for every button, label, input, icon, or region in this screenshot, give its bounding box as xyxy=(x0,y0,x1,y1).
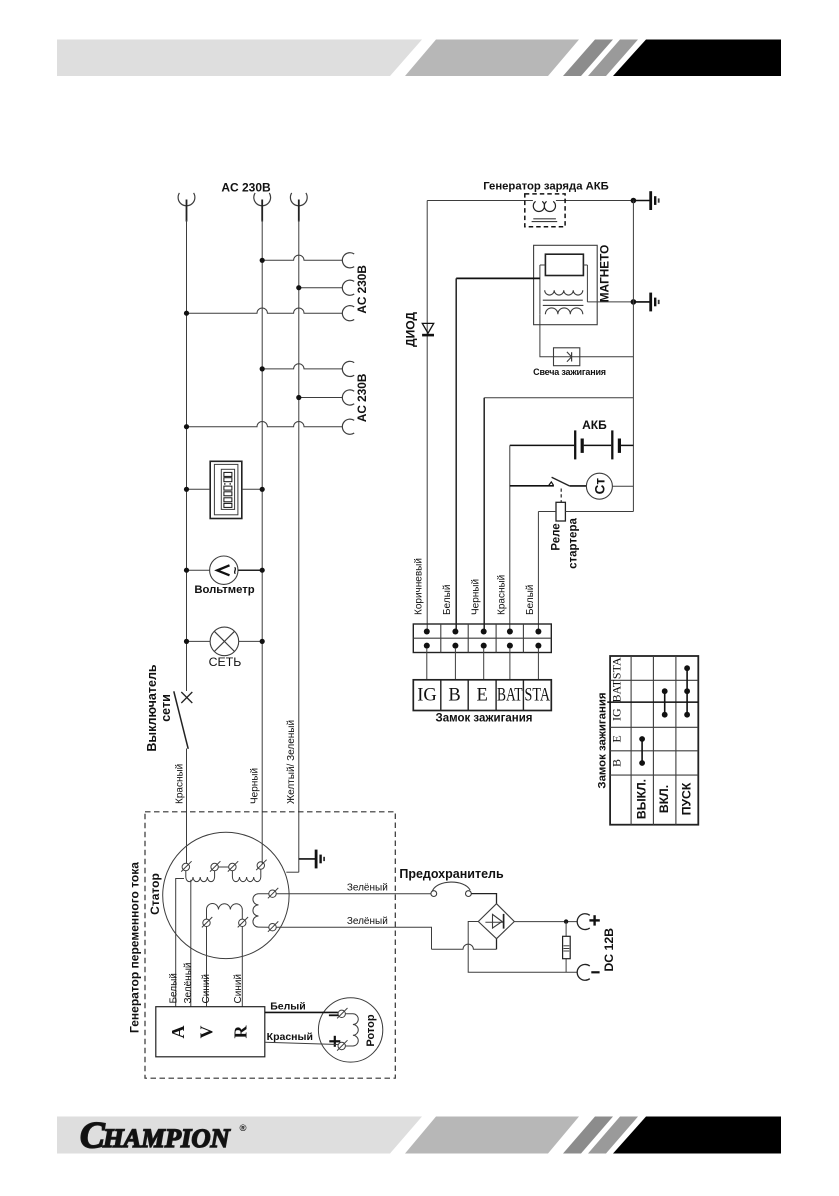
svg-text:Белый: Белый xyxy=(270,1001,305,1013)
wire counter right xyxy=(242,488,262,490)
stator terminal 3 xyxy=(229,863,236,870)
svg-text:DC 12В: DC 12В xyxy=(602,928,616,972)
junction voltmeter right xyxy=(260,568,265,573)
ignition lock pin labels xyxy=(413,680,551,711)
svg-text:ПУСК: ПУСК xyxy=(680,782,694,815)
wire white STA vertical xyxy=(537,512,539,632)
connector pin bottom 5 xyxy=(535,643,541,649)
svg-text:сети: сети xyxy=(159,694,173,722)
svg-text:Красный: Красный xyxy=(496,575,507,615)
stator terminal 6 xyxy=(239,919,246,926)
svg-text:Желтый/ Зеленый: Желтый/ Зеленый xyxy=(286,720,297,804)
socket contact 4 xyxy=(342,361,354,376)
svg-text:Замок зажигания: Замок зажигания xyxy=(435,713,532,725)
svg-text:Синий: Синий xyxy=(233,974,244,1004)
wire battery to switch (red) xyxy=(509,445,511,631)
spark plug xyxy=(554,348,580,366)
stator terminal 5 xyxy=(203,919,210,926)
svg-text:ВЫКЛ.: ВЫКЛ. xyxy=(635,779,649,819)
svg-text:Черный: Черный xyxy=(250,768,261,804)
stator DC winding xyxy=(253,894,269,928)
rotor terminal plus xyxy=(338,1042,345,1049)
socket contact 1 xyxy=(342,253,354,268)
wire lamp right xyxy=(239,640,263,642)
wire green 1 xyxy=(276,893,431,895)
junction resistor top xyxy=(564,919,568,923)
rotor plus sign xyxy=(329,1040,340,1042)
stator terminal 2 xyxy=(211,863,218,870)
svg-text:IG: IG xyxy=(610,708,624,721)
diode VD1 xyxy=(422,323,434,335)
wire to outlet 1 xyxy=(262,255,342,260)
svg-text:Статор: Статор xyxy=(148,873,162,915)
stator terminal 1 xyxy=(182,863,189,870)
magneto secondary winding xyxy=(545,308,582,314)
wire blue 1 xyxy=(206,927,208,1007)
magneto core line 2 xyxy=(543,304,584,306)
wire phase 1 lower vertical xyxy=(186,749,188,864)
junction counter right xyxy=(260,487,265,492)
svg-text:R: R xyxy=(231,1025,251,1039)
wire magneto to ground 2 xyxy=(587,301,650,303)
wire green tap xyxy=(190,880,192,1007)
terminal DC minus xyxy=(577,964,599,980)
svg-text:Ст: Ст xyxy=(592,478,607,495)
svg-text:B: B xyxy=(610,759,624,767)
wire black vertical xyxy=(483,398,485,632)
svg-text:ВКЛ.: ВКЛ. xyxy=(657,785,671,813)
svg-text:Предохранитель: Предохранитель xyxy=(399,867,504,881)
ignition connector block xyxy=(413,624,551,653)
svg-text:Синий: Синий xyxy=(201,974,212,1004)
decorative band xyxy=(57,1117,422,1154)
svg-text:СЕТЬ: СЕТЬ xyxy=(209,655,242,669)
wire white tap xyxy=(176,879,184,1007)
svg-text:Белый: Белый xyxy=(169,973,180,1003)
wire to outlet 6 xyxy=(187,422,343,427)
rotor minus sign xyxy=(329,1014,338,1016)
connector pin top 3 xyxy=(481,629,487,635)
stator terminal 8 xyxy=(269,924,276,931)
svg-text:STA: STA xyxy=(610,657,624,679)
rotor winding xyxy=(345,1014,358,1046)
magneto primary winding xyxy=(545,290,583,295)
svg-text:Красный: Красный xyxy=(175,764,186,804)
wire voltmeter left xyxy=(187,569,210,571)
svg-text:Выключатель: Выключатель xyxy=(145,664,159,751)
junction node outlet 6 xyxy=(184,424,189,429)
magneto core rectangle xyxy=(545,254,583,275)
wire to outlet 3 xyxy=(187,308,343,313)
svg-text:Зелёный: Зелёный xyxy=(347,916,388,927)
socket contact 2 xyxy=(342,280,354,295)
wire green 2 to rectifier xyxy=(432,944,497,949)
stator terminal 7 xyxy=(269,890,276,897)
connector pin top 1 xyxy=(424,629,430,635)
rotor terminal minus xyxy=(338,1010,345,1017)
svg-text:V: V xyxy=(197,1026,217,1039)
CHAMPION logo xyxy=(80,1116,247,1157)
wire magneto primary (white, bold) xyxy=(456,277,540,279)
stator link t2-t3 xyxy=(218,866,228,868)
junction lamp left xyxy=(184,639,189,644)
connector pin bottom 3 xyxy=(481,643,487,649)
svg-text:IG: IG xyxy=(417,686,437,706)
svg-text:Зелёный: Зелёный xyxy=(347,882,388,893)
svg-text:Замок зажигания: Замок зажигания xyxy=(597,692,609,788)
connector pin top 5 xyxy=(535,629,541,635)
svg-text:AC 230В: AC 230В xyxy=(355,374,369,423)
wire to outlet 2 xyxy=(299,287,343,289)
dashed box AC generator xyxy=(145,812,395,1078)
indicator lamp SET xyxy=(210,627,239,656)
wire connector to lock 3 xyxy=(483,648,485,680)
connector pin bottom 2 xyxy=(452,643,458,649)
wire phase 3 vertical xyxy=(298,220,300,872)
svg-text:E: E xyxy=(610,735,624,742)
magneto box xyxy=(534,245,598,324)
wire phase 2 vertical xyxy=(261,220,263,864)
connector pin bottom 4 xyxy=(507,643,513,649)
socket contact 5 xyxy=(342,390,354,405)
junction node outlet 5 xyxy=(296,395,301,400)
svg-text:®: ® xyxy=(240,1123,247,1134)
dashed box charge generator xyxy=(525,194,565,227)
table contact VYKL B-E xyxy=(641,739,643,763)
wire white magneto vertical xyxy=(455,278,457,631)
wire to counter left xyxy=(187,488,211,490)
ignition switch table xyxy=(607,656,698,825)
fuse xyxy=(431,882,471,896)
terminal AC output 3 xyxy=(290,193,307,206)
svg-text:HAMPION: HAMPION xyxy=(102,1123,230,1153)
svg-text:Генератор заряда АКБ: Генератор заряда АКБ xyxy=(483,181,609,193)
wire blue 2 xyxy=(241,927,243,1007)
stator main winding A xyxy=(186,871,215,882)
connector pin top 4 xyxy=(507,629,513,635)
svg-text:STA: STA xyxy=(525,686,551,706)
wire to outlet 4 xyxy=(262,364,342,369)
svg-text:Генератор переменного тока: Генератор переменного тока xyxy=(128,862,142,1033)
svg-text:Красный: Красный xyxy=(267,1031,313,1043)
stator terminal 4 xyxy=(257,862,264,869)
svg-text:BAT: BAT xyxy=(497,686,523,706)
stator main winding B xyxy=(232,869,260,881)
junction ground 1 xyxy=(631,198,637,204)
svg-text:МАГНЕТО: МАГНЕТО xyxy=(598,245,612,303)
rotor circle xyxy=(318,998,382,1062)
mains switch S1 xyxy=(174,691,193,749)
svg-text:B: B xyxy=(448,686,460,706)
wire starter to right vertical xyxy=(612,485,633,487)
table contact VKL BAT-IG xyxy=(664,691,666,715)
wire relay horizontal xyxy=(538,511,556,513)
svg-text:Черный: Черный xyxy=(470,579,481,615)
junction node outlet 3 xyxy=(184,311,189,316)
AVR box xyxy=(156,1007,265,1057)
wire AVR to rotor red xyxy=(265,1042,338,1044)
wire connector to lock 5 xyxy=(537,648,539,680)
junction counter left xyxy=(184,487,189,492)
svg-text:Реле: Реле xyxy=(551,523,563,550)
wire green 2 xyxy=(276,927,431,949)
wire connector to lock 4 xyxy=(509,648,511,680)
svg-text:Вольтметр: Вольтметр xyxy=(194,584,254,596)
socket contact 6 xyxy=(342,419,354,434)
svg-text:Зелёный: Зелёный xyxy=(183,963,194,1004)
wire to outlet 5 xyxy=(299,397,343,399)
svg-text:Ротор: Ротор xyxy=(365,1014,377,1046)
dc load resistor xyxy=(563,922,571,973)
terminal AC output 2 xyxy=(254,193,271,206)
wire magneto HT to spark plug xyxy=(540,314,554,357)
magneto core line 1 xyxy=(543,299,583,301)
wire top horizontal to charge coil xyxy=(427,200,533,202)
junction lamp right xyxy=(260,639,265,644)
starter relay coil xyxy=(556,502,565,521)
junction node outlet 1 xyxy=(260,258,265,263)
terminal AC output 1 xyxy=(178,193,195,206)
wire voltmeter right xyxy=(238,569,262,571)
ground 1 xyxy=(633,200,649,202)
svg-text:AC 230В: AC 230В xyxy=(355,265,369,314)
svg-text:AC 230В: AC 230В xyxy=(221,180,271,194)
svg-text:A: A xyxy=(168,1026,188,1039)
wire lamp left xyxy=(187,640,211,642)
wire rectifier minus leg xyxy=(468,922,577,973)
svg-text:Белый: Белый xyxy=(525,585,536,615)
wire kill (black) horizontal xyxy=(484,397,633,399)
svg-text:E: E xyxy=(476,686,487,706)
terminal DC plus xyxy=(577,914,600,930)
bridge rectifier xyxy=(478,904,514,939)
wire diode vertical (brown) xyxy=(426,201,428,632)
svg-text:стартера: стартера xyxy=(568,518,580,569)
magneto frame lines xyxy=(540,265,588,314)
svg-text:Свеча зажигания: Свеча зажигания xyxy=(533,367,606,377)
wire rectifier plus xyxy=(514,921,577,923)
hour meter counter xyxy=(210,461,242,518)
voltmeter V1 xyxy=(210,556,243,584)
svg-text:BAT: BAT xyxy=(610,679,624,702)
wire connector to lock 2 xyxy=(454,648,456,680)
dashed link switch to relay xyxy=(560,489,562,503)
wire AVR to rotor white xyxy=(265,1011,338,1013)
ground 3 xyxy=(299,858,315,860)
wire yellow-green to ground xyxy=(286,871,299,873)
wire connector to lock 1 xyxy=(426,648,428,680)
starter motor St xyxy=(586,473,612,499)
starter switch xyxy=(510,477,587,486)
junction voltmeter left xyxy=(184,568,189,573)
wire fuse to rectifier xyxy=(471,894,496,904)
ground 2 xyxy=(633,301,649,303)
junction node outlet 2 xyxy=(296,285,301,290)
wire brown to pin IG xyxy=(426,631,428,633)
wire phase 1 vertical xyxy=(186,220,188,691)
connector pin top 2 xyxy=(452,629,458,635)
stator circle xyxy=(163,832,289,958)
wire right main vertical xyxy=(632,201,634,512)
connector pin bottom 1 xyxy=(424,643,430,649)
svg-text:Коричневый: Коричневый xyxy=(414,558,425,615)
svg-text:Белый: Белый xyxy=(442,585,453,615)
junction node outlet 4 xyxy=(260,366,265,371)
stator lighting winding xyxy=(207,904,243,920)
charge generator coil xyxy=(532,201,558,221)
junction ground 2 xyxy=(631,299,637,305)
table contact PUSK STA-BAT-IG xyxy=(686,668,688,715)
decorative band xyxy=(57,40,422,77)
socket contact 3 xyxy=(342,306,354,321)
wire spark plug to kill line xyxy=(580,356,634,358)
battery cells xyxy=(510,430,634,459)
svg-text:АКБ: АКБ xyxy=(582,418,607,432)
svg-text:ДИОД: ДИОД xyxy=(404,312,418,347)
